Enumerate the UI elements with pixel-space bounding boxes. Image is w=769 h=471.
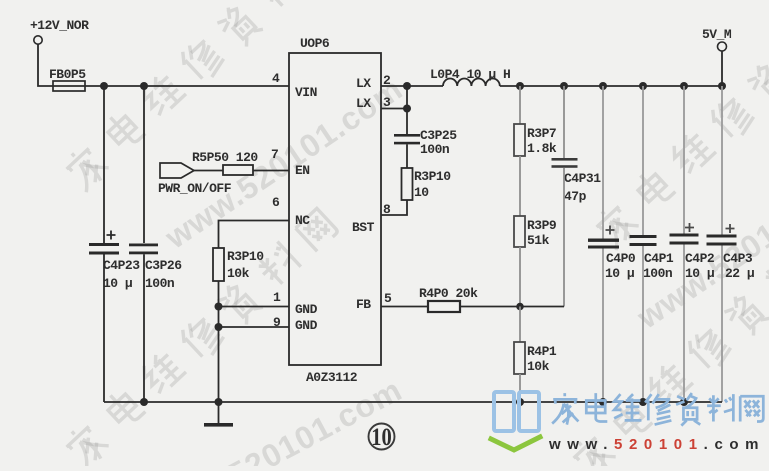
wire C3P26 bottom: [143, 254, 145, 402]
node junction rail x520: [516, 82, 524, 90]
svg-text:PWR_ON/OFF: PWR_ON/OFF: [158, 181, 232, 196]
signal flag PWR_ON/OFF: [158, 163, 232, 196]
wire R3P9 to FB node: [519, 247, 521, 306]
watermark zh stripe top-right: [590, 0, 769, 252]
svg-text:10: 10: [414, 185, 429, 200]
svg-text:10k: 10k: [227, 266, 250, 281]
wire R3P7 to R3P9: [519, 156, 521, 216]
node junction FB divider: [516, 303, 524, 311]
node junction on VIN rail at C3P26: [140, 82, 148, 90]
resistor R3P10 10 (BST): [402, 168, 452, 200]
svg-text:VIN: VIN: [295, 85, 317, 100]
wire C3P25 to R3P10b: [406, 144, 408, 168]
node junction rail x643: [639, 82, 647, 90]
wire C4P1 bottom: [642, 246, 644, 402]
resistor R3P9: [514, 216, 557, 248]
svg-text:R5P50 120: R5P50 120: [192, 150, 258, 165]
svg-text:R3P9: R3P9: [527, 218, 557, 233]
svg-text:R4P1: R4P1: [527, 344, 557, 359]
wire 5V_M terminal drop: [721, 51, 723, 86]
svg-text:FB0P5: FB0P5: [49, 67, 86, 82]
node junction on VIN rail at C4P23: [100, 82, 108, 90]
logo book icon: [491, 392, 540, 450]
wire LX2 to LX3 to C3P25: [406, 86, 408, 134]
watermark zh stripe top-left: [60, 0, 342, 194]
svg-text:C4P1: C4P1: [644, 251, 674, 266]
svg-text:R3P7: R3P7: [527, 126, 556, 141]
wire R4P0 to FB divider node: [460, 306, 564, 308]
node junction rail x603: [599, 82, 607, 90]
svg-text:7: 7: [271, 147, 279, 162]
wire C4P0 bottom: [602, 249, 604, 403]
wire LX pin 2: [381, 85, 443, 87]
svg-text:R3P10: R3P10: [227, 249, 264, 264]
wire R3P10 to GND pins: [218, 281, 220, 402]
svg-text:GND: GND: [295, 302, 318, 317]
svg-text:10 μ: 10 μ: [103, 276, 133, 291]
resistor R3P10 10k: [213, 248, 264, 281]
wire R5P50 to pin 7 EN: [253, 170, 289, 172]
wire from +12V_NOR to fuse: [38, 45, 53, 87]
svg-text:UOP6: UOP6: [300, 36, 330, 51]
svg-text:C4P2: C4P2: [685, 251, 715, 266]
resistor R3P7: [514, 124, 557, 156]
svg-text:3: 3: [383, 95, 391, 110]
wire R4P1 to ground rail: [519, 374, 521, 402]
svg-text:51k: 51k: [527, 233, 550, 248]
wire R3P10b to BST pin 8: [381, 200, 407, 215]
node junction gnd rail x643: [639, 398, 647, 406]
node junction rail x684: [680, 82, 688, 90]
svg-text:R3P10: R3P10: [414, 169, 451, 184]
sheet number 10: [369, 423, 395, 450]
svg-text:1.8k: 1.8k: [527, 141, 557, 156]
wire NC pin 6: [219, 221, 290, 249]
node 5V_M terminal: [702, 27, 732, 51]
svg-text:5: 5: [384, 291, 392, 306]
capacitor C4P1: [630, 235, 674, 281]
wire C4P2 top: [683, 86, 685, 234]
svg-text:C4P0: C4P0: [606, 251, 636, 266]
wire VIN rail to pin 4: [85, 85, 289, 87]
capacitor C4P0: [588, 226, 636, 282]
svg-text:22 μ: 22 μ: [725, 266, 755, 281]
capacitor C3P26: [129, 244, 182, 292]
wire pin 9 GND: [219, 326, 290, 328]
node junction rail x564: [560, 82, 568, 90]
op-amp U1 : IC UOP6 AOZ3112 box: [289, 36, 381, 385]
svg-text:100n: 100n: [145, 276, 175, 291]
svg-text:www.520101.com: www.520101.com: [548, 436, 765, 453]
svg-text:R4P0 20k: R4P0 20k: [419, 286, 478, 301]
node junction pin9: [215, 323, 223, 331]
resistor R4P0: [419, 286, 478, 312]
svg-text:LX: LX: [356, 76, 371, 91]
node +12V_NOR terminal: [30, 18, 89, 44]
svg-text:10k: 10k: [527, 359, 550, 374]
wire FB node to R4P1: [519, 307, 521, 343]
node junction gnd rail x520: [516, 398, 524, 406]
svg-text:LX: LX: [356, 96, 371, 111]
svg-text:9: 9: [273, 315, 281, 330]
node junction gnd rail C3P26: [140, 398, 148, 406]
svg-text:2: 2: [383, 73, 391, 88]
svg-text:8: 8: [383, 202, 391, 217]
svg-text:L0P4 10 μ H: L0P4 10 μ H: [430, 67, 510, 82]
svg-text:FB: FB: [356, 297, 371, 312]
wire LX pin 3: [381, 108, 407, 110]
svg-text:47p: 47p: [564, 189, 587, 204]
svg-text:1: 1: [273, 290, 281, 305]
wire C3P26 top: [143, 86, 145, 243]
resistor R5P50: [192, 150, 258, 175]
logo layer: [491, 392, 765, 453]
wire pin 1 GND: [219, 306, 290, 308]
wire C4P2 bottom: [683, 245, 685, 403]
svg-text:10 μ: 10 μ: [605, 266, 635, 281]
svg-text:100n: 100n: [420, 142, 450, 157]
node junction gnd rail x603: [599, 398, 607, 406]
svg-text:5V_M: 5V_M: [702, 27, 732, 42]
svg-text:+12V_NOR: +12V_NOR: [30, 18, 89, 33]
wire FB pin 5: [381, 306, 428, 308]
capacitor C4P2: [670, 223, 715, 281]
capacitor C4P23: [89, 231, 140, 292]
svg-text:BST: BST: [352, 220, 375, 235]
watermark zh stripe bottom-right: [567, 216, 769, 471]
wire 5V output rail: [500, 85, 722, 87]
fuse FB0P5: [49, 67, 86, 91]
inductor L0P4: [430, 67, 510, 86]
resistor R4P1: [514, 342, 557, 374]
svg-text:4: 4: [272, 71, 280, 86]
node junction LX3: [403, 105, 411, 113]
wire rail to R3P7: [519, 86, 521, 124]
wire C4P3 bottom: [721, 246, 723, 403]
svg-text:C3P26: C3P26: [145, 258, 182, 273]
node junction pin1: [215, 303, 223, 311]
node junction gnd rail R3P10: [215, 398, 223, 406]
svg-text:EN: EN: [295, 163, 310, 178]
wire ground rail: [104, 401, 722, 403]
svg-text:100n: 100n: [643, 266, 673, 281]
wire C4P23 top: [103, 86, 105, 243]
svg-text:10 μ: 10 μ: [685, 266, 715, 281]
wire C4P3 top: [721, 86, 723, 235]
svg-text:GND: GND: [295, 318, 318, 333]
svg-text:10: 10: [371, 423, 391, 450]
node junction LX2: [403, 82, 411, 90]
svg-text:6: 6: [272, 195, 280, 210]
svg-text:C4P31: C4P31: [564, 171, 601, 186]
wire C4P23 bottom: [103, 255, 105, 403]
watermark zh stripe bottom-left: [60, 205, 342, 471]
wire C4P1 top: [642, 86, 644, 235]
capacitor C3P25: [394, 128, 457, 157]
node junction gnd rail x684: [680, 398, 688, 406]
svg-text:A0Z3112: A0Z3112: [306, 370, 358, 385]
logo zh text: [552, 393, 763, 426]
wire C4P31 branch top: [563, 86, 565, 158]
wire C4P31 branch bottom: [563, 168, 565, 307]
svg-text:NC: NC: [295, 213, 310, 228]
capacitor C4P3: [707, 224, 755, 281]
ground: [204, 402, 233, 427]
node junction rail x722: [718, 82, 726, 90]
svg-text:C3P25: C3P25: [420, 128, 457, 143]
wire flag to R5P50: [194, 170, 223, 172]
capacitor C4P31: [552, 158, 602, 204]
svg-text:C4P3: C4P3: [723, 251, 753, 266]
wire C4P0 top: [602, 86, 604, 239]
svg-text:C4P23: C4P23: [103, 258, 140, 273]
